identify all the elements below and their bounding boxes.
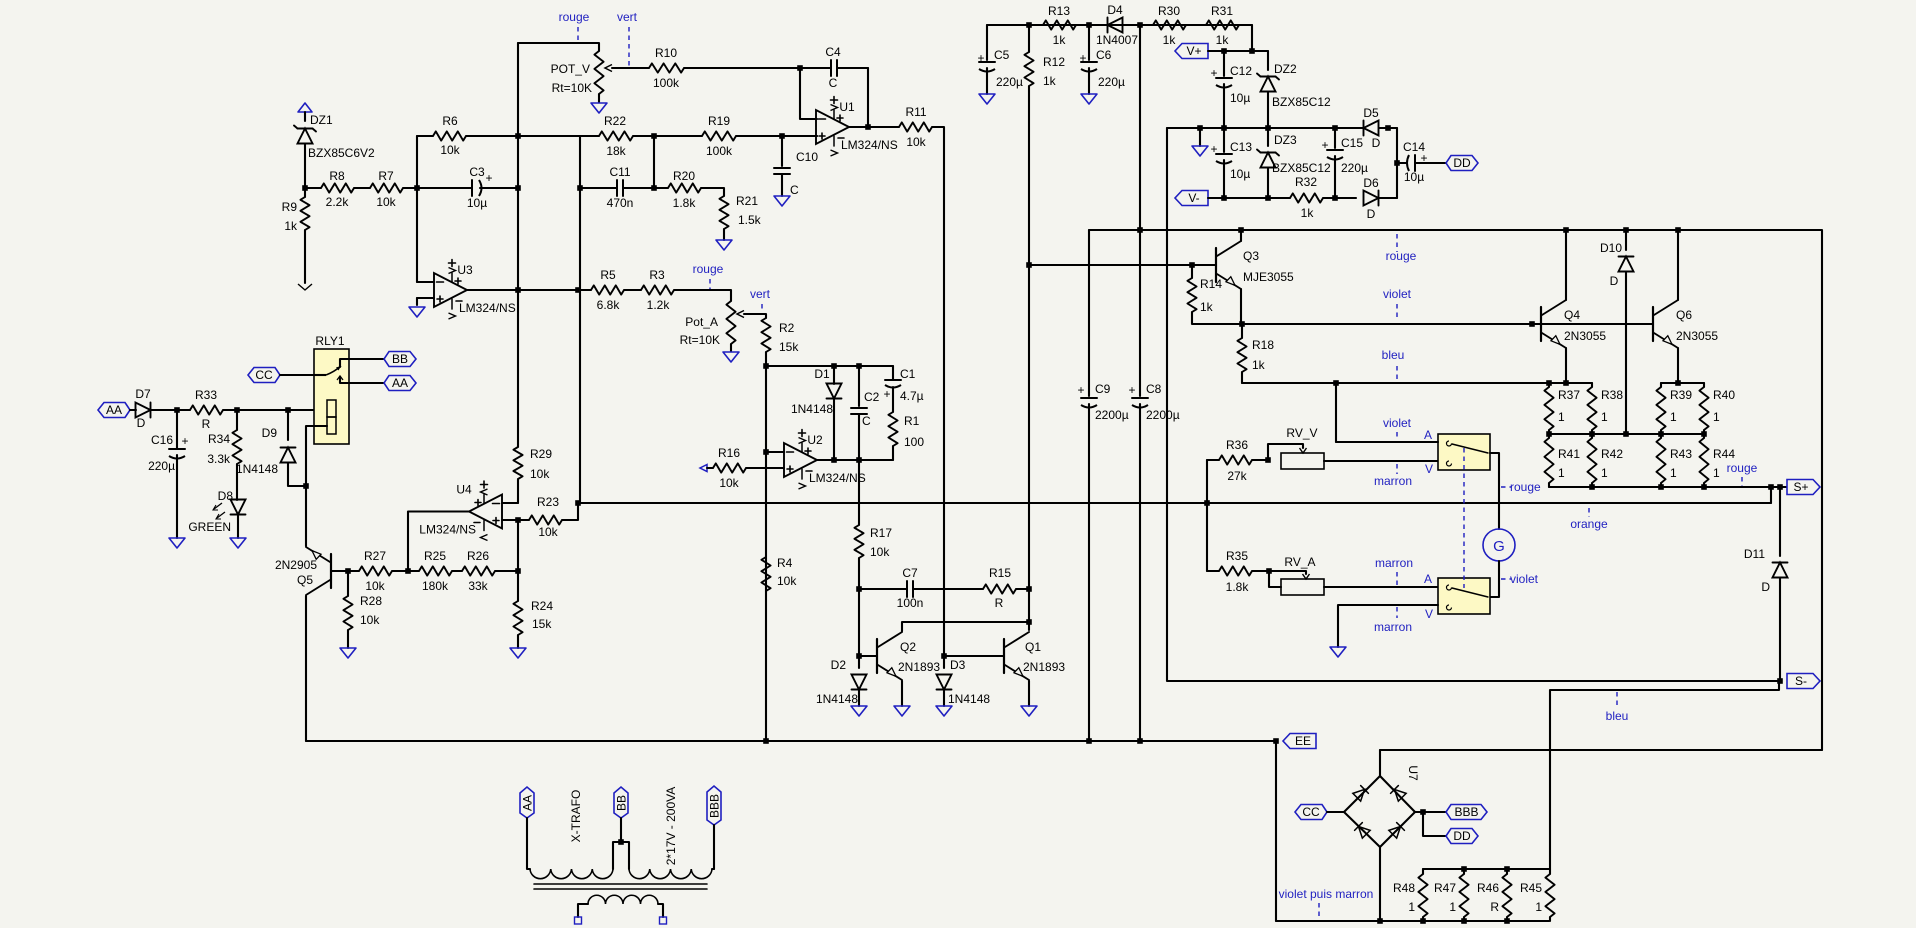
node r434c	[1658, 431, 1664, 437]
svg-text:+: +	[485, 171, 492, 185]
capacitor C16	[148, 410, 188, 538]
svg-text:1k: 1k	[1252, 358, 1266, 372]
svg-text:1k: 1k	[1053, 33, 1067, 47]
svg-text:R42: R42	[1601, 447, 1623, 461]
svg-text:2200µ: 2200µ	[1146, 408, 1180, 422]
svg-text:C3: C3	[469, 165, 485, 179]
svg-text:rouge: rouge	[693, 262, 724, 276]
global label EE	[1283, 734, 1316, 749]
resistor R48	[1393, 869, 1428, 921]
node C13 bottom	[1221, 195, 1227, 201]
svg-text:1k: 1k	[1301, 206, 1315, 220]
global label AA left	[98, 403, 130, 418]
node Q6 emit	[1675, 380, 1681, 386]
wire tap bracket	[613, 842, 629, 869]
resistor R19	[702, 114, 817, 158]
global label V+	[1175, 44, 1208, 59]
trimmer RV_A	[1269, 555, 1438, 595]
node gnd stub	[1197, 125, 1203, 131]
capacitor C2	[851, 366, 880, 460]
ground C6	[1081, 94, 1097, 104]
node D9 top	[285, 407, 291, 413]
zener DZ1	[294, 113, 375, 160]
node C8 top	[1137, 22, 1143, 28]
wire U7 top	[1379, 750, 1381, 776]
wire row383 left	[1242, 382, 1592, 384]
svg-text:vert: vert	[617, 10, 638, 24]
net label violet5	[1501, 578, 1511, 580]
svg-text:D1: D1	[814, 367, 830, 381]
resistor R37	[1544, 383, 1580, 434]
svg-text:R16: R16	[718, 446, 740, 460]
svg-text:D: D	[1367, 207, 1376, 221]
svg-text:1k: 1k	[284, 219, 298, 233]
node rbot3	[1504, 918, 1510, 924]
svg-text:470n: 470n	[607, 196, 634, 210]
wire	[1396, 128, 1398, 198]
capacitor C8	[1128, 25, 1179, 741]
svg-text:C12: C12	[1230, 64, 1252, 78]
net label orange	[1588, 508, 1590, 517]
svg-text:1.5k: 1.5k	[738, 213, 762, 227]
wire row503	[578, 502, 1771, 504]
node Q3 col	[1238, 227, 1244, 233]
svg-text:1: 1	[1558, 466, 1565, 480]
svg-text:100k: 100k	[706, 144, 733, 158]
resistor R26	[462, 549, 518, 593]
wire	[527, 818, 530, 869]
node r434a	[1546, 431, 1552, 437]
svg-text:R11: R11	[905, 105, 926, 119]
svg-text:2N3055: 2N3055	[1564, 329, 1606, 343]
svg-text:1: 1	[1713, 466, 1720, 480]
svg-text:violet: violet	[1383, 287, 1412, 301]
svg-text:1: 1	[1408, 900, 1415, 914]
node trunk/C3	[515, 185, 521, 191]
resistor R35	[1207, 549, 1269, 594]
svg-text:10k: 10k	[719, 476, 739, 490]
svg-text:AA: AA	[521, 795, 535, 811]
node coil/D9	[303, 483, 309, 489]
wire trunk B	[579, 136, 581, 503]
svg-text:10k: 10k	[870, 545, 890, 559]
capacitor C5	[977, 25, 1023, 94]
svg-text:BZX85C12: BZX85C12	[1272, 95, 1331, 109]
wire Q3 emitter	[1240, 289, 1242, 324]
rectifier U7	[1344, 765, 1420, 847]
capacitor C15	[1321, 128, 1368, 198]
op-amp U1	[816, 97, 898, 157]
node trunkB/C11	[577, 185, 583, 191]
svg-text:rouge: rouge	[1727, 461, 1758, 475]
wire row921	[1276, 920, 1549, 922]
node D1 top	[831, 363, 837, 369]
svg-text:R34: R34	[208, 432, 230, 446]
node r487c	[1701, 484, 1707, 490]
global label AA trafo	[520, 787, 534, 818]
svg-text:1.8k: 1.8k	[673, 196, 697, 210]
wire trunk A	[517, 43, 519, 447]
svg-text:1N4007: 1N4007	[1096, 33, 1138, 47]
svg-text:6.8k: 6.8k	[597, 298, 621, 312]
svg-text:R6: R6	[442, 114, 458, 128]
svg-text:R29: R29	[530, 447, 552, 461]
diode D11	[1744, 487, 1788, 681]
resistor R41	[1544, 434, 1580, 487]
svg-text:U1: U1	[839, 100, 855, 114]
svg-text:10µ: 10µ	[1230, 91, 1250, 105]
wire U7 bottom	[1379, 847, 1381, 921]
wire V+ row	[1208, 50, 1268, 52]
potentiometer POT_V	[551, 51, 649, 102]
svg-text:V+: V+	[1186, 44, 1201, 58]
global label CC U7	[1295, 805, 1327, 820]
wire G bottom	[1490, 561, 1499, 597]
diode D7	[130, 387, 190, 430]
svg-text:U4: U4	[456, 483, 472, 497]
svg-text:Q3: Q3	[1243, 249, 1259, 263]
wire Q4 collector	[1565, 230, 1567, 300]
svg-text:R4: R4	[777, 556, 793, 570]
power flag V	[298, 103, 312, 112]
svg-text:10k: 10k	[376, 195, 396, 209]
wire Q3 collector	[1240, 230, 1242, 241]
svg-text:LM324/NS: LM324/NS	[459, 301, 516, 315]
node C8/row	[1137, 738, 1143, 744]
svg-text:C13: C13	[1230, 140, 1252, 154]
net label rouge5	[1501, 486, 1511, 488]
ground Q2	[894, 706, 910, 716]
resistor R28	[343, 571, 382, 648]
svg-text:V: V	[1425, 607, 1433, 621]
resistor R5	[591, 268, 641, 312]
wire RVV col	[1335, 383, 1337, 442]
resistor R24	[513, 571, 553, 648]
diode D3	[937, 656, 991, 706]
resistor R45	[1520, 869, 1555, 921]
svg-text:C11: C11	[609, 165, 630, 179]
wire	[1327, 811, 1344, 813]
wire row EE	[306, 740, 1276, 742]
svg-text:marron: marron	[1374, 620, 1412, 634]
svg-text:D: D	[137, 416, 146, 430]
resistor R3	[641, 268, 731, 312]
svg-text:D7: D7	[135, 387, 151, 401]
svg-text:R12: R12	[1043, 55, 1065, 69]
svg-text:10k: 10k	[530, 467, 550, 481]
svg-text:LM324/NS: LM324/NS	[809, 471, 866, 485]
svg-text:U3: U3	[457, 263, 473, 277]
svg-text:R2: R2	[779, 321, 795, 335]
svg-text:220µ: 220µ	[1341, 161, 1368, 175]
transistor Q2	[877, 632, 940, 680]
svg-text:RV_A: RV_A	[1284, 555, 1315, 569]
node out/trunk2	[575, 287, 581, 293]
svg-text:BB: BB	[392, 352, 408, 366]
node row503 start	[575, 500, 581, 506]
ground SW2	[1330, 647, 1346, 657]
svg-text:rouge: rouge	[559, 10, 590, 24]
resistor R40	[1699, 383, 1735, 434]
svg-text:C4: C4	[825, 45, 841, 59]
node RVV left	[1265, 457, 1271, 463]
wire pot top	[518, 43, 599, 51]
svg-text:LM324/NS: LM324/NS	[419, 523, 476, 537]
svg-text:D10: D10	[1600, 241, 1622, 255]
svg-text:1k: 1k	[1043, 74, 1057, 88]
node r487b	[1658, 484, 1664, 490]
svg-text:RLY1: RLY1	[315, 334, 344, 348]
svg-text:R20: R20	[673, 169, 695, 183]
svg-text:1k: 1k	[1216, 33, 1230, 47]
node r434d	[1701, 431, 1707, 437]
svg-text:D4: D4	[1107, 3, 1123, 17]
svg-text:AA: AA	[392, 376, 408, 390]
transformer X-TRAFO primary2	[629, 869, 714, 879]
svg-text:C6: C6	[1096, 48, 1112, 62]
svg-text:1: 1	[1535, 900, 1542, 914]
svg-text:R8: R8	[329, 169, 345, 183]
svg-text:D3: D3	[950, 658, 966, 672]
wire	[305, 486, 307, 546]
svg-text:10k: 10k	[360, 613, 380, 627]
node trunk/R6	[515, 133, 521, 139]
resistor R42	[1587, 434, 1623, 487]
wire C9 top	[1088, 230, 1090, 396]
net label marron3	[1396, 607, 1398, 618]
wire U1 minus	[800, 68, 817, 119]
ground Pot_A	[723, 352, 739, 362]
wire row366	[766, 365, 893, 367]
node Q3/R18	[1239, 321, 1245, 327]
svg-text:+: +	[1321, 138, 1328, 152]
resistor R32	[1290, 175, 1335, 220]
transformer X-TRAFO primary1	[530, 869, 613, 879]
wire CC	[280, 374, 314, 376]
svg-text:10k: 10k	[365, 579, 385, 593]
node out/D1	[831, 457, 837, 463]
svg-text:2N2905: 2N2905	[275, 558, 317, 572]
transistor Q6	[1653, 300, 1718, 348]
svg-text:D9: D9	[262, 426, 278, 440]
wire DD	[1423, 812, 1446, 836]
node R31 bottom	[1249, 48, 1255, 54]
svg-text:C1: C1	[900, 367, 916, 381]
node tap	[618, 839, 624, 845]
node C15 top	[1332, 125, 1338, 131]
capacitor C14	[1397, 140, 1446, 184]
svg-text:180k: 180k	[422, 579, 449, 593]
node C12 top	[1221, 48, 1227, 54]
svg-text:C: C	[829, 76, 838, 90]
diode D6	[1363, 176, 1397, 221]
wire R45 top row	[1550, 681, 1779, 869]
resistor R16	[700, 446, 746, 490]
wire Q5 base	[331, 570, 348, 572]
svg-text:220µ: 220µ	[996, 75, 1023, 89]
svg-text:U2: U2	[807, 433, 823, 447]
resistor R21	[719, 194, 761, 240]
svg-text:D8: D8	[218, 489, 234, 503]
meter G	[1483, 529, 1515, 561]
node R18/row	[1333, 380, 1339, 386]
node r487a	[1589, 484, 1595, 490]
node C2 top	[856, 363, 862, 369]
svg-text:27k: 27k	[1227, 469, 1247, 483]
svg-text:R1: R1	[904, 414, 920, 428]
svg-text:Rt=10K: Rt=10K	[680, 333, 720, 347]
node S-	[1777, 678, 1783, 684]
svg-text:S+: S+	[1793, 480, 1808, 494]
svg-text:10µ: 10µ	[1230, 167, 1250, 181]
wire	[713, 825, 715, 869]
svg-text:D: D	[1372, 136, 1381, 150]
resistor R11	[899, 105, 944, 656]
node U1 out	[865, 124, 871, 130]
node R14 top	[1189, 262, 1195, 268]
ground Q1	[1021, 706, 1037, 716]
svg-text:1: 1	[1670, 466, 1677, 480]
wire R36 col	[1206, 460, 1208, 571]
svg-text:AA: AA	[106, 403, 122, 417]
svg-text:15k: 15k	[779, 340, 799, 354]
node R2 bottom	[763, 363, 769, 369]
resistor R7	[354, 169, 417, 209]
resistor R33	[190, 388, 237, 431]
wire row487	[1549, 486, 1787, 488]
svg-text:DZ2: DZ2	[1274, 62, 1297, 76]
resistor R31	[1206, 4, 1252, 51]
svg-text:10k: 10k	[777, 574, 797, 588]
diode D1	[791, 366, 842, 460]
svg-text:1.8k: 1.8k	[1226, 580, 1250, 594]
capacitor C11	[580, 165, 654, 210]
svg-text:R36: R36	[1226, 438, 1248, 452]
node R37 top	[1546, 380, 1552, 386]
relay RLY1	[314, 334, 384, 444]
node C9/row	[1086, 738, 1092, 744]
wire U1 out	[849, 126, 899, 128]
wire row383 right	[1661, 382, 1704, 384]
svg-text:R3: R3	[649, 268, 665, 282]
wire BBB	[1415, 811, 1446, 813]
transformer secondary	[575, 895, 667, 924]
svg-text:R32: R32	[1295, 175, 1317, 189]
wire Q6 collector	[1677, 230, 1679, 300]
svg-text:C10: C10	[796, 150, 818, 164]
wire row750	[1380, 749, 1822, 751]
zener DZ2	[1257, 51, 1331, 128]
node D3/base	[941, 653, 947, 659]
resistor R17	[854, 525, 892, 589]
wire row230	[1089, 230, 1822, 750]
svg-text:R: R	[1490, 900, 1499, 914]
diode D9	[236, 410, 306, 486]
global label S+	[1787, 480, 1820, 495]
svg-text:U7: U7	[1406, 765, 1420, 781]
svg-text:R9: R9	[282, 200, 298, 214]
svg-text:C9: C9	[1095, 382, 1111, 396]
resistor R12	[1024, 25, 1065, 88]
svg-text:C5: C5	[994, 48, 1010, 62]
wire Q1 emitter	[1028, 681, 1030, 706]
svg-text:rouge: rouge	[1386, 249, 1417, 263]
svg-text:G: G	[1493, 538, 1505, 555]
wire	[653, 136, 655, 188]
svg-text:220µ: 220µ	[1098, 75, 1125, 89]
resistor R43	[1656, 434, 1692, 487]
svg-text:Q6: Q6	[1676, 308, 1692, 322]
wire G top	[1490, 453, 1499, 529]
ground C16	[169, 538, 185, 548]
node row503/col	[1204, 500, 1210, 506]
diode D2	[816, 658, 867, 706]
svg-text:R15: R15	[989, 566, 1011, 580]
svg-text:1: 1	[1601, 466, 1608, 480]
capacitor C4	[825, 45, 868, 90]
node Q4 emit	[1563, 380, 1569, 386]
svg-text:DD: DD	[1453, 156, 1471, 170]
node D11 top	[1777, 484, 1783, 490]
node R4/row	[763, 738, 769, 744]
resistor R36	[1207, 438, 1268, 483]
svg-text:R5: R5	[600, 268, 616, 282]
svg-text:D6: D6	[1363, 176, 1379, 190]
svg-text:R45: R45	[1520, 881, 1542, 895]
node rtop1	[1461, 866, 1467, 872]
svg-text:R40: R40	[1713, 388, 1735, 402]
ground mid	[1192, 146, 1208, 156]
capacitor C3	[417, 165, 518, 210]
svg-text:Q1: Q1	[1025, 640, 1041, 654]
node BBB/DD	[1420, 809, 1426, 815]
svg-text:R21: R21	[736, 194, 758, 208]
resistor R27	[348, 549, 419, 593]
ground POT_V	[591, 103, 607, 113]
ground C10	[774, 196, 790, 206]
resistor R38	[1587, 383, 1623, 434]
node R8/R9 junction	[302, 185, 308, 191]
svg-text:1.2k: 1.2k	[647, 298, 671, 312]
svg-text:rouge: rouge	[1510, 480, 1541, 494]
resistor R46	[1477, 869, 1512, 921]
svg-text:A: A	[1424, 428, 1432, 442]
resistor R8	[305, 169, 354, 209]
ground R28	[340, 648, 356, 658]
wire R45-48 top row	[1423, 868, 1550, 870]
node DZ3 bottom	[1265, 195, 1271, 201]
svg-text:R28: R28	[360, 594, 382, 608]
wire EE down	[1275, 741, 1277, 921]
capacitor C9	[1077, 382, 1128, 741]
node C12/C13	[1221, 125, 1227, 131]
diode D4	[1089, 3, 1140, 47]
node R33/R34	[234, 407, 240, 413]
node U7/row921	[1377, 918, 1383, 924]
transformer core	[534, 884, 707, 889]
node R13/R12	[1026, 22, 1032, 28]
svg-text:R19: R19	[708, 114, 730, 128]
svg-text:DZ3: DZ3	[1274, 133, 1297, 147]
svg-text:15k: 15k	[532, 617, 552, 631]
ground C5	[979, 94, 995, 104]
svg-text:D: D	[1610, 274, 1619, 288]
node D2/base	[856, 653, 862, 659]
svg-text:33k: 33k	[468, 579, 488, 593]
svg-text:V-: V-	[1188, 191, 1199, 205]
node D10 top	[1623, 227, 1629, 233]
svg-text:orange: orange	[1570, 517, 1608, 531]
